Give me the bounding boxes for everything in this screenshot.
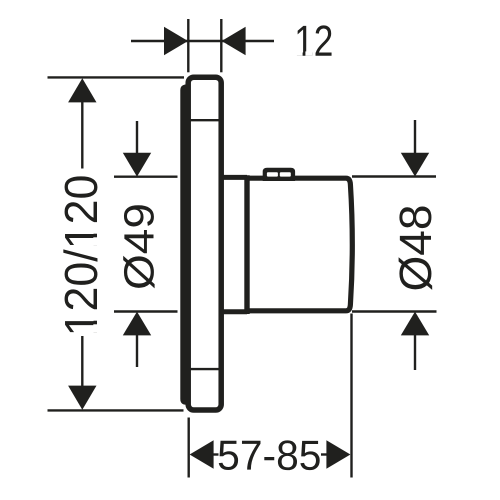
right arrow 57-85 tail <box>321 453 327 455</box>
left arrow 57-85 <box>190 440 214 469</box>
dim line 120/120 lower segment <box>81 336 83 388</box>
handle adapter divider <box>244 175 249 314</box>
handle adapter bottom edge <box>222 309 248 314</box>
lower line O49 <box>114 310 178 312</box>
extension line right of 12 <box>220 19 222 72</box>
upper arrow O48 <box>401 153 429 177</box>
handle adapter top edge <box>222 175 248 180</box>
clip slot right <box>280 172 291 176</box>
dimension line 12 <box>131 40 274 42</box>
svg-text:Ø48: Ø48 <box>390 204 441 291</box>
extension line top of 120/120 <box>48 76 185 78</box>
right extension 57-85 <box>350 314 352 478</box>
right arrow 57-85 <box>326 440 350 469</box>
upper line O48 <box>352 175 436 177</box>
arrow up 120/120 <box>68 78 96 102</box>
wall sleeve <box>180 85 191 405</box>
lower arrow O49 tail <box>136 335 138 368</box>
serif masks for digit 1s of label 120/120 <box>93 226 98 333</box>
upper arrow O48 tail <box>414 120 416 154</box>
arrow down 120/120 <box>68 386 96 410</box>
left arrow 57-85 tail <box>213 453 219 455</box>
escutcheon plate <box>188 77 221 410</box>
svg-text:57-85: 57-85 <box>217 432 321 479</box>
left extension 57-85 <box>187 418 189 478</box>
upper line O49 <box>114 175 178 177</box>
knob clip <box>263 168 295 181</box>
lower arrow O48 <box>401 312 429 336</box>
clip slot left <box>267 172 278 176</box>
extension line bottom of 120/120 <box>48 409 184 411</box>
arrow pointing left at plate right <box>222 27 246 56</box>
serif mask for digit 1 of label 12 <box>296 51 312 55</box>
lower arrow O48 tail <box>414 335 416 371</box>
control knob <box>247 178 352 311</box>
svg-text:12: 12 <box>294 16 333 65</box>
dim line 120/120 upper segment <box>81 100 83 169</box>
lower line O48 <box>352 310 437 312</box>
extension line left of 12 <box>187 19 189 72</box>
svg-text:Ø49: Ø49 <box>115 203 162 290</box>
plate inner line top <box>190 119 219 121</box>
svg-text:120/120: 120/120 <box>55 175 107 337</box>
plate inner line bottom <box>190 368 220 370</box>
lower arrow O49 <box>123 312 151 336</box>
upper arrow O49 <box>123 153 151 177</box>
upper arrow O49 tail <box>136 121 138 154</box>
arrow pointing right at plate left <box>164 27 188 56</box>
